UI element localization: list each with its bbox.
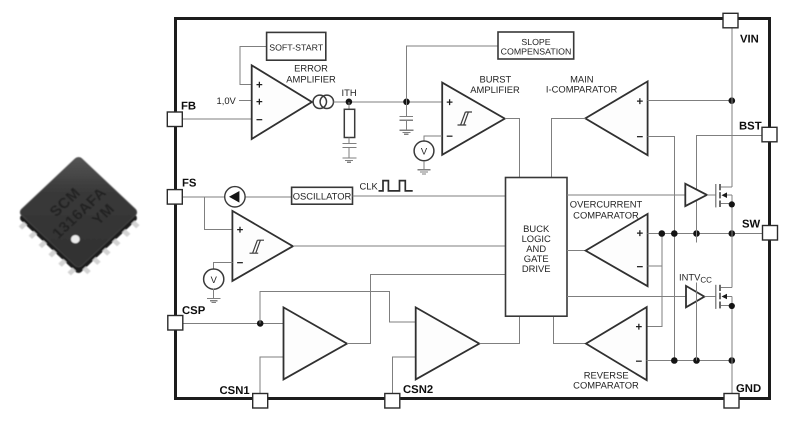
comparator FS hysteresis	[232, 211, 293, 281]
svg-text:−: −	[237, 258, 244, 270]
svg-text:DRIVE: DRIVE	[522, 263, 551, 274]
wire tie line to reverse comparator +	[647, 234, 662, 327]
wire main comparator - input down to SW node	[648, 136, 675, 233]
wire main comparator + input to VIN rail	[648, 100, 732, 102]
pin VIN	[723, 13, 759, 45]
voltage source V at FS comparator	[204, 269, 224, 289]
ground under burst V source	[417, 161, 430, 174]
wire overcurrent - input to reverse + input	[648, 234, 662, 267]
svg-text:+: +	[446, 97, 453, 109]
clock waveform glyph	[379, 181, 413, 191]
transistor Q2 low-side MOSFET	[704, 234, 731, 394]
amplifier current sense 2	[416, 307, 480, 379]
wire FS comparator output to buck logic	[293, 245, 506, 247]
svg-text:ERROR: ERROR	[294, 63, 328, 74]
wire ITH line to burst amplifier + input	[334, 101, 443, 103]
node reverse row junctions	[671, 357, 735, 364]
pin CSN1	[220, 385, 268, 408]
svg-text:OSCILLATOR: OSCILLATOR	[293, 191, 352, 202]
wire buck logic to high-side gate driver	[567, 194, 685, 196]
hysteresis glyph inside burst amplifier	[458, 112, 473, 125]
pin SW	[742, 219, 778, 240]
wire 1.0V reference stub	[239, 100, 252, 102]
wire CSN2 amp output into buck logic bottom	[479, 316, 519, 343]
wire SW row to reverse row vertical	[673, 234, 675, 361]
wire V reference to burst amp - input	[424, 136, 442, 141]
node VIN / main+ junction	[729, 97, 736, 104]
amplifier current sense 1	[284, 307, 348, 379]
svg-text:+: +	[636, 96, 643, 108]
svg-text:VIN: VIN	[740, 34, 759, 46]
svg-text:−: −	[636, 261, 643, 273]
node high-side source junction	[729, 201, 735, 207]
svg-text:OVERCURRENT: OVERCURRENT	[570, 199, 643, 210]
svg-text:+: +	[237, 225, 244, 237]
svg-text:SOFT-START: SOFT-START	[269, 42, 324, 52]
buffer high-side gate driver	[685, 184, 707, 206]
svg-text:1,0V: 1,0V	[217, 95, 237, 106]
svg-text:AMPLIFIER: AMPLIFIER	[286, 73, 336, 84]
pin GND	[724, 383, 761, 408]
wire INTVCC net vertical	[696, 234, 698, 243]
wire FB to error amp inverting input	[182, 118, 251, 120]
svg-text:+: +	[636, 228, 643, 240]
wire FS branch to hysteresis comparator + input	[205, 197, 233, 230]
svg-text:AMPLIFIER: AMPLIFIER	[470, 84, 520, 95]
svg-text:CSN1: CSN1	[220, 385, 250, 397]
pin CSP	[168, 305, 206, 330]
block OSCILLATOR	[292, 187, 353, 204]
node slope-compensation junction	[403, 99, 410, 106]
svg-text:+: +	[636, 322, 643, 334]
svg-text:−: −	[636, 132, 643, 144]
wire SW node row	[648, 233, 763, 235]
wire buck logic bottom to reverse comparator output	[554, 316, 587, 343]
wire FS to sync circle	[182, 196, 224, 198]
svg-text:V: V	[421, 146, 428, 157]
op-amp error amplifier	[252, 65, 312, 139]
svg-text:COMPARATOR: COMPARATOR	[573, 209, 639, 220]
capacitor at burst amp input to ground	[400, 102, 414, 121]
wire CSP input line	[183, 322, 283, 324]
wire CSP over to CSN2 amp upper input	[260, 291, 416, 323]
hysteresis glyph inside FS comparator	[250, 240, 265, 253]
svg-text:INTVCC: INTVCC	[679, 272, 712, 285]
wire burst amp output into buck logic top	[505, 119, 520, 178]
wire slope compensation to ITH line	[407, 46, 499, 102]
capacitor ITH compensation to ground	[342, 144, 356, 148]
wire oscillator output to buck logic	[353, 195, 506, 197]
node CSP junction	[257, 320, 264, 327]
wire sync circle to oscillator	[245, 196, 291, 198]
wire BST to SW node	[697, 136, 763, 234]
wire main comparator output into buck logic top	[551, 118, 585, 177]
svg-text:CSN2: CSN2	[403, 384, 433, 396]
op-amp burst amplifier	[442, 83, 505, 155]
wire CSN1 to first sense amp lower input	[260, 357, 283, 393]
svg-text:−: −	[446, 131, 453, 143]
pin BST	[739, 120, 777, 142]
block SLOPE COMPENSATION	[498, 32, 574, 59]
node low-side source junction	[729, 303, 735, 309]
wire soft-start to error amp top input	[240, 47, 267, 85]
wire reverse - input row	[647, 360, 732, 362]
wire buck logic to overcurrent comparator output	[567, 250, 586, 252]
comparator main I-comparator (points left)	[585, 81, 647, 155]
buffer low-side gate driver	[686, 286, 704, 307]
wire V reference to FS comparator - input	[214, 263, 233, 270]
svg-text:−: −	[256, 115, 263, 127]
svg-text:CSP: CSP	[182, 305, 206, 317]
svg-text:BST: BST	[739, 120, 762, 132]
IC outer border	[176, 19, 770, 399]
svg-text:FB: FB	[181, 101, 196, 113]
wire CSN2 to second sense amp lower input	[392, 357, 415, 393]
chip package photo U1 (SCM1316AFA QFN)	[11, 156, 146, 283]
ground under ITH RC	[343, 147, 357, 162]
wire VIN down to high-side FET drain	[731, 28, 733, 187]
node ITH junction	[346, 99, 353, 106]
ground under FS V source	[207, 289, 220, 303]
voltage source V at burst amp	[414, 141, 434, 161]
block BUCK LOGIC AND GATE DRIVE	[506, 178, 568, 317]
comparator overcurrent (points left)	[586, 214, 648, 286]
svg-text:−: −	[636, 356, 643, 368]
pin FB	[167, 101, 196, 127]
svg-text:V: V	[211, 274, 218, 285]
resistor ITH compensation	[344, 102, 354, 144]
svg-text:+: +	[256, 79, 263, 91]
svg-text:SW: SW	[742, 219, 761, 231]
svg-text:FS: FS	[182, 178, 197, 190]
svg-text:COMPARATOR: COMPARATOR	[573, 380, 639, 391]
svg-text:ITH: ITH	[342, 87, 357, 98]
svg-text:I-COMPARATOR: I-COMPARATOR	[546, 84, 618, 95]
svg-text:+: +	[256, 96, 263, 108]
node SW row junctions	[659, 230, 736, 237]
pin FS	[167, 178, 197, 205]
svg-text:CLK: CLK	[360, 180, 379, 191]
block SOFT-START	[267, 32, 326, 60]
wire buck logic to low-side gate driver	[567, 296, 686, 298]
transistor Q1 high-side MOSFET	[707, 184, 732, 234]
svg-text:SLOPE: SLOPE	[521, 37, 550, 47]
ground under burst input capacitor	[400, 120, 414, 134]
wire CSN1 amp output to buck logic	[347, 274, 506, 343]
current source symbol at error amp output	[313, 95, 333, 108]
sync detect circle with left arrow	[225, 187, 245, 207]
svg-text:COMPENSATION: COMPENSATION	[501, 46, 572, 56]
svg-text:GND: GND	[736, 383, 761, 395]
comparator reverse (points left)	[586, 307, 647, 380]
pin CSN2	[385, 384, 433, 408]
